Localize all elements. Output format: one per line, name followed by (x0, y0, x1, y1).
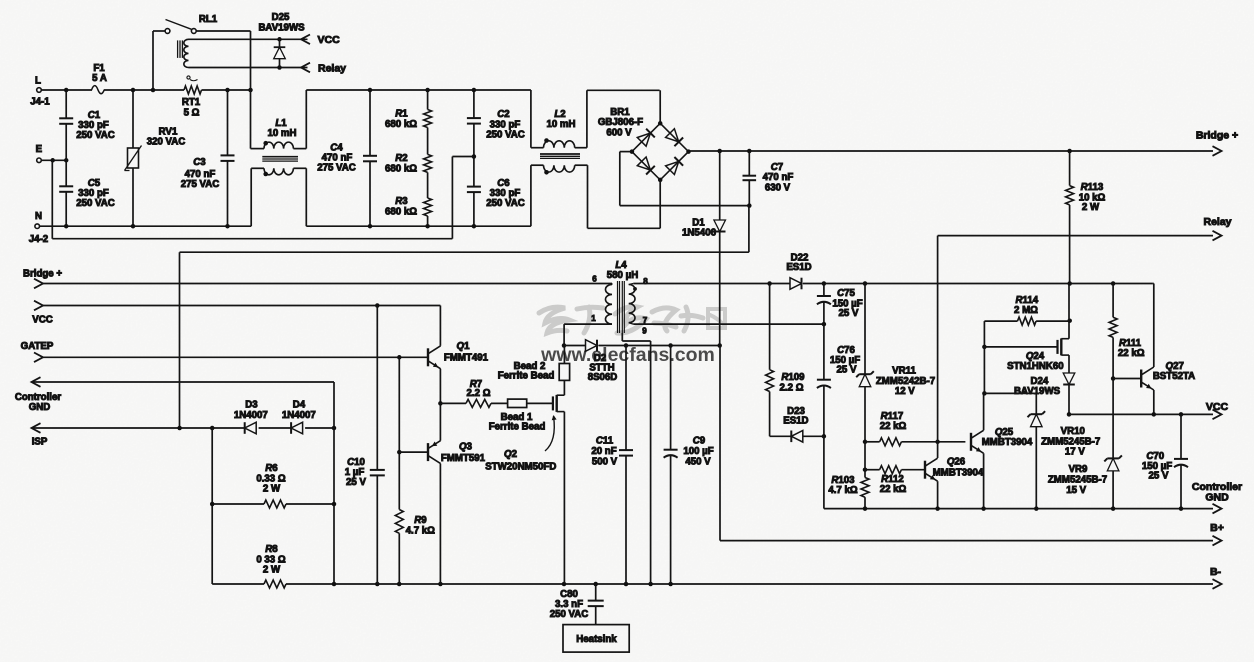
resistor R3 (385, 172, 432, 228)
wire Bridge+ rail (689, 149, 1214, 154)
capacitor C3 (181, 88, 235, 229)
resistor R103 (828, 470, 869, 509)
port GATEP (input) (21, 341, 428, 362)
wire L4 core ground (622, 333, 650, 584)
wire Relay riser (938, 236, 1213, 458)
port Bridge+ (input) (23, 269, 612, 289)
fuse F1 (92, 63, 107, 94)
wire primary GND bus / B- line (212, 582, 1213, 587)
varistor RV1 (125, 88, 186, 229)
resistor R112 (863, 442, 925, 495)
transistor Q2 (MOSFET) (485, 380, 564, 584)
port Controller GND (output) (15, 377, 334, 413)
transistor Q25 (971, 393, 1033, 508)
transistor Q24 (MOSFET) (982, 284, 1069, 374)
relay RL1 switch (151, 14, 251, 92)
zener VR11 (856, 284, 935, 442)
resistor R9 (395, 357, 435, 584)
wire L4 secondary top rail (633, 281, 790, 286)
port ISP (output) (32, 423, 337, 447)
wire ISP ladder right (333, 382, 335, 584)
ferrite bead Bead1 (489, 399, 553, 432)
port Controller GND (right) (1192, 481, 1242, 513)
resistor R114 (984, 295, 1072, 347)
wire bridge minus jog (180, 206, 749, 428)
transistor Q26 (925, 457, 984, 509)
wire earth line J4-2 (52, 157, 452, 239)
wire ISP ladder left (211, 428, 213, 584)
resistor R6 (210, 463, 336, 508)
transistor Q27 (1113, 284, 1195, 415)
wire BR1 AC1 top (587, 90, 660, 123)
diode D22 (786, 253, 1153, 290)
port Bridge+ (right) (1196, 130, 1238, 156)
wire Q24 gate net (982, 347, 1036, 414)
capacitor C80 (550, 584, 604, 625)
zener VR10 (1028, 411, 1101, 508)
capacitor C7 (743, 151, 794, 208)
node L / terminal J4-1 (30, 76, 50, 108)
wire BR1 AC2 bottom (588, 180, 661, 228)
thermistor RT1 (182, 76, 202, 119)
zener VR9 (1048, 376, 1122, 508)
capacitor C4 (317, 88, 377, 229)
capacitor C75 (817, 284, 863, 325)
wire relay top / VCC stub (189, 31, 308, 92)
ferrite bead Bead2 (498, 346, 570, 382)
port Relay (relay) (301, 63, 346, 75)
capacitor C70 (1142, 414, 1188, 508)
capacitor C10 (345, 306, 385, 585)
transistor Q3 (399, 403, 485, 584)
wire C76 to ctrl gnd (823, 436, 825, 508)
relay RL1 coil (178, 39, 189, 67)
wire Controller GND bus (824, 506, 1213, 511)
wire rail after L1 (306, 89, 531, 91)
resistor R111 (1109, 284, 1145, 379)
diode D23 (770, 406, 824, 442)
wire E line (41, 158, 68, 163)
wire VCC out line (1069, 412, 1213, 417)
capacitor C11 (591, 346, 633, 585)
wire BR1 minus (620, 152, 750, 206)
inductor L1 (251, 90, 307, 226)
resistor R8 (256, 544, 286, 588)
diode D3 (234, 400, 268, 434)
port VCC (right out) (1206, 401, 1229, 419)
port VCC (input) (32, 301, 440, 326)
wire N rail (39, 225, 251, 227)
inductor L2 (531, 90, 588, 228)
capacitor C76 (817, 324, 860, 438)
node N / terminal J4-2 (29, 211, 48, 245)
heatsink box (563, 625, 629, 653)
diode D2 (562, 340, 722, 383)
wire L rail (41, 89, 250, 91)
wire B+ riser (720, 346, 1213, 541)
port B+ (output) (1210, 522, 1224, 545)
wire N rail after L1 (306, 225, 531, 227)
diode D24 (1014, 373, 1075, 417)
node E terminal (36, 144, 43, 163)
diode D1 (682, 151, 725, 346)
wire L4 pin7 lead (633, 322, 826, 327)
capacitor C2 (467, 88, 525, 157)
capacitor C6 (467, 157, 525, 229)
resistor R117 (863, 411, 966, 446)
resistor R113 (1066, 151, 1106, 284)
capacitor C1 (59, 88, 115, 161)
port B- (output) (1210, 566, 1222, 589)
resistor R1 (385, 88, 432, 130)
diode D4 (282, 400, 316, 434)
wire relay bottom / Relay stub (189, 67, 308, 69)
diode D25 (258, 12, 305, 70)
resistor R7 (438, 379, 507, 407)
transistor Q1 (428, 306, 489, 404)
resistor R2 (385, 128, 432, 175)
port Relay (right) (1203, 216, 1231, 240)
resistor R109 (766, 284, 806, 437)
wire C2 C6 midpoint (452, 154, 476, 159)
transformer L4 (564, 260, 648, 346)
watermark (539, 307, 725, 366)
port VCC (relay) (301, 34, 340, 46)
bridge rectifier BR1 (598, 107, 691, 182)
capacitor C5 (59, 160, 115, 228)
capacitor C9 (664, 346, 714, 585)
